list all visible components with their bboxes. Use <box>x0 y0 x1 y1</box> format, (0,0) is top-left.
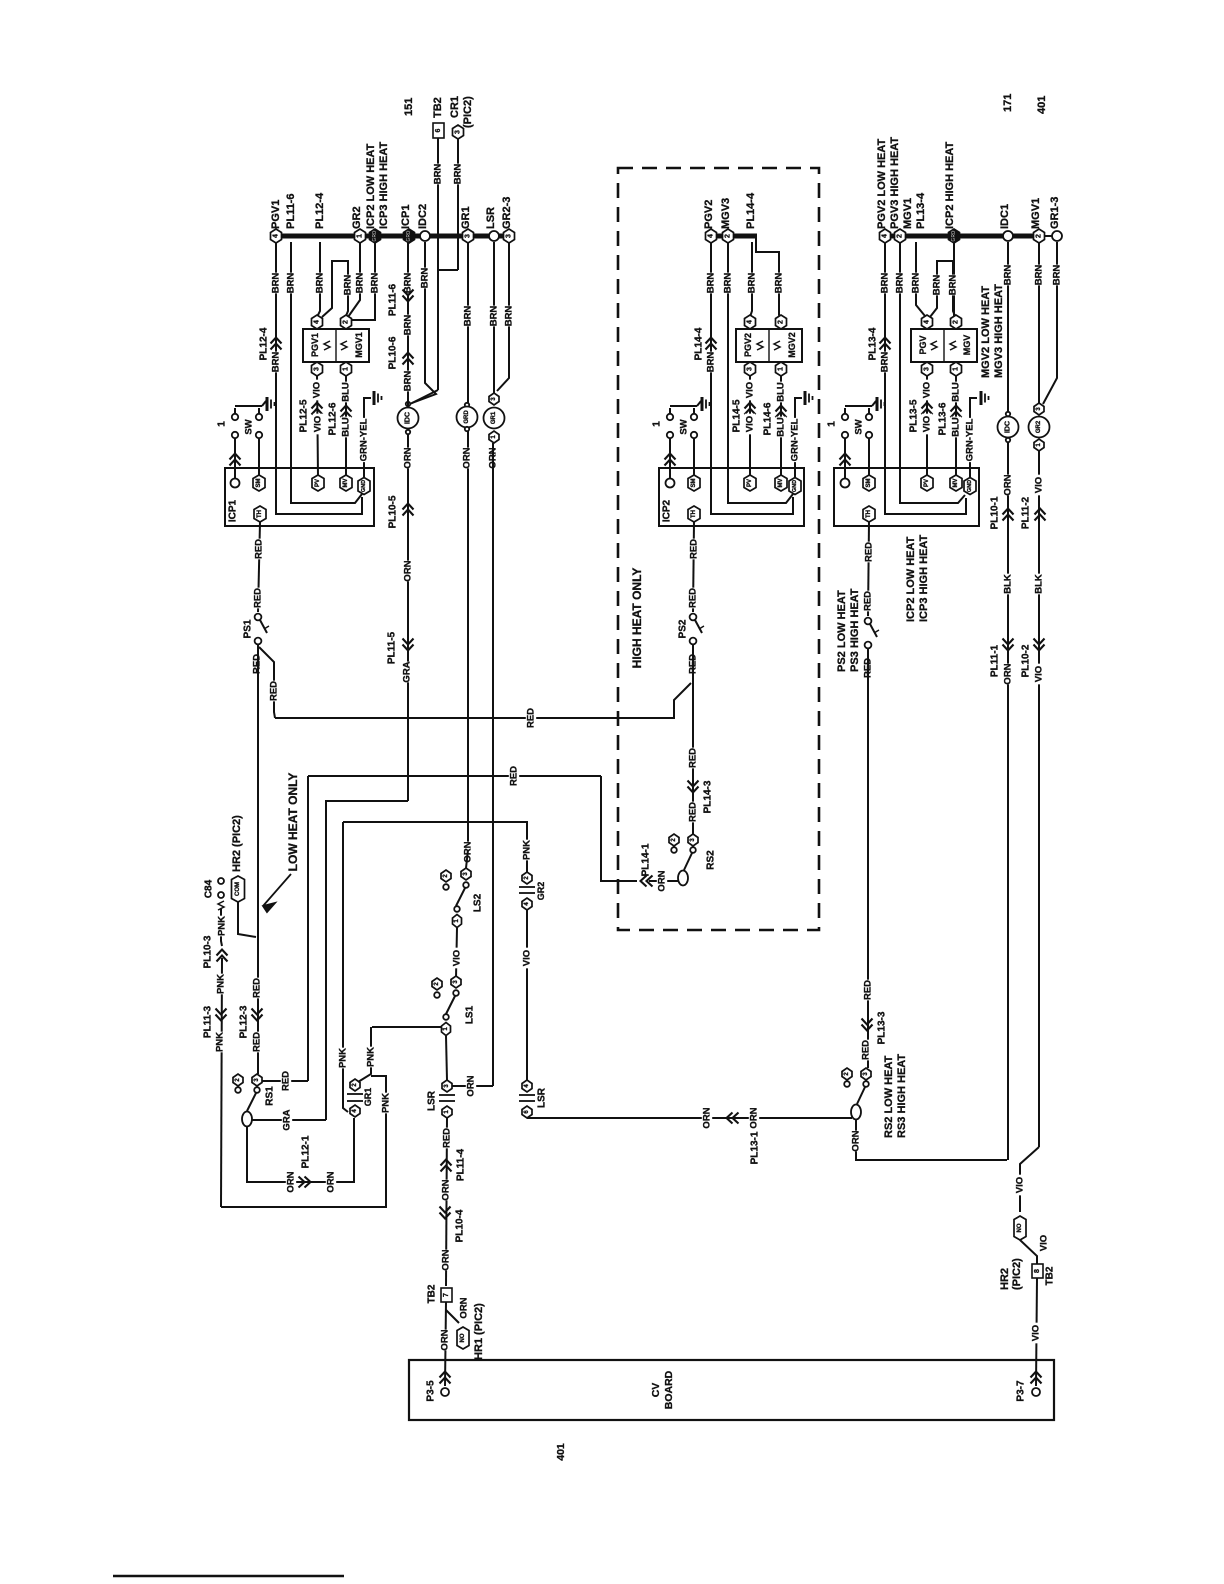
node ICP1 PV <box>312 475 324 491</box>
wire right ICP TH to PS (RED) <box>868 522 869 616</box>
svg-text:MGV2 LOW HEAT: MGV2 LOW HEAT <box>980 286 992 378</box>
node GRD terminal ICP1 on bus <box>404 229 415 243</box>
svg-text:VIO: VIO <box>922 416 933 432</box>
node ICP1 GND <box>358 478 370 495</box>
terminal block TB2-8 <box>1032 1264 1043 1278</box>
node ICP2 GND <box>789 478 801 495</box>
svg-text:PL10-1: PL10-1 <box>990 496 1001 529</box>
wire PL14-4 drop to PGV2 coil <box>750 242 752 317</box>
svg-text:PNK: PNK <box>217 916 228 936</box>
svg-text:PS3 HIGH HEAT: PS3 HIGH HEAT <box>849 588 861 672</box>
svg-text:ORN: ORN <box>403 560 414 581</box>
relay contact HR2 NO (PIC2) <box>1014 1216 1026 1240</box>
connector P3-5 chevron <box>440 1372 451 1384</box>
relay switch RS1 <box>233 1074 243 1086</box>
svg-text:4: 4 <box>708 234 715 238</box>
svg-text:ORN: ORN <box>466 1075 477 1096</box>
limit switch LS2 <box>441 870 451 882</box>
svg-text:MV: MV <box>343 479 349 488</box>
node right ICP MV <box>950 475 962 491</box>
connector PL10-4 chevron <box>440 1207 451 1219</box>
wire GRA to RS1 coil route <box>326 801 408 1120</box>
connector PL12-1 chevron <box>299 1177 311 1188</box>
svg-text:GRN-YEL: GRN-YEL <box>359 418 370 461</box>
wire TB2-8 to P3-7 (VIO) <box>1036 1278 1037 1386</box>
svg-text:PL11-4: PL11-4 <box>456 1148 467 1181</box>
wire PS2 down to RS2 (RED) <box>692 645 694 834</box>
board CV BOARD box <box>409 1360 1054 1420</box>
svg-text:1: 1 <box>953 367 960 371</box>
node ICP2 pin (circle) <box>666 479 675 488</box>
svg-text:GRD: GRD <box>372 230 378 242</box>
svg-text:GRA: GRA <box>402 661 413 682</box>
svg-text:MGV1: MGV1 <box>902 198 914 229</box>
svg-text:BRN: BRN <box>355 273 366 294</box>
svg-text:PL11-2: PL11-2 <box>1021 496 1032 529</box>
wire LS2 to LS1 (VIO) <box>456 928 457 978</box>
ground (right) <box>980 391 983 405</box>
svg-text:RED: RED <box>442 1128 453 1148</box>
igniter IDC (left) <box>406 402 410 406</box>
node PGV pin 4 (right) <box>922 315 933 329</box>
wire RS1 to PL12-1 (ORN) <box>247 1118 354 1182</box>
svg-text:8: 8 <box>1034 1269 1041 1273</box>
svg-text:PL14-4: PL14-4 <box>745 192 757 229</box>
wire PL12-4 drop to PGV1 coil <box>317 242 320 317</box>
svg-text:PL13-3: PL13-3 <box>877 1011 888 1044</box>
svg-text:BLK: BLK <box>1034 574 1045 594</box>
svg-text:VIO: VIO <box>313 416 324 432</box>
svg-text:ORN: ORN <box>462 447 473 468</box>
svg-text:RED: RED <box>281 1071 292 1091</box>
svg-text:VIO: VIO <box>1034 477 1045 493</box>
wire PL14-1 exit route <box>601 776 637 881</box>
node PGV2 terminal 4 <box>706 229 717 243</box>
node MGV3 terminal 2 <box>723 229 734 243</box>
gas valve PGV2/MGV2 box <box>736 329 802 362</box>
wire GRD/ICP1 drop to igniter <box>407 242 409 407</box>
svg-text:BRN: BRN <box>1003 265 1014 286</box>
svg-text:PL12-3: PL12-3 <box>239 1005 250 1038</box>
wire LSR link (ORN) <box>452 1085 493 1087</box>
svg-text:PL11-6: PL11-6 <box>285 194 297 229</box>
svg-text:GRD: GRD <box>464 410 470 424</box>
wire PS down to RS2 lower (RED) <box>867 649 869 1068</box>
svg-text:RS1: RS1 <box>265 1086 276 1106</box>
svg-text:PL11-3: PL11-3 <box>203 1005 214 1038</box>
svg-text:PGV1: PGV1 <box>270 200 282 229</box>
wire PGV drop to ICP nest (right) <box>885 242 966 514</box>
svg-text:BLU: BLU <box>951 382 962 402</box>
svg-text:GR1-3: GR1-3 <box>1049 197 1061 229</box>
svg-text:PGV2 LOW HEAT: PGV2 LOW HEAT <box>876 138 888 229</box>
ground (middle) <box>804 391 807 405</box>
wire ICP1 TH to PS1 (RED) <box>258 522 260 612</box>
svg-text:7: 7 <box>443 1293 450 1297</box>
svg-text:2: 2 <box>897 234 904 238</box>
flame sensor GR1 (left) <box>489 393 499 405</box>
svg-text:BRN: BRN <box>706 352 717 373</box>
svg-text:1: 1 <box>827 421 838 427</box>
wire MGV2-1 to ICP2 MV (BLU) <box>780 376 782 477</box>
wire TB2/CR1 link <box>438 269 458 271</box>
svg-text:LS2: LS2 <box>473 893 484 912</box>
svg-text:PGV3 HIGH HEAT: PGV3 HIGH HEAT <box>889 137 901 229</box>
svg-text:BRN: BRN <box>948 275 959 296</box>
svg-text:HR2 (PIC2): HR2 (PIC2) <box>231 815 243 872</box>
spark sensor GRD (left) <box>465 403 469 407</box>
connector PL10-6 chevron <box>403 353 414 365</box>
wire NO to TB2-8 <box>1020 1240 1037 1264</box>
svg-text:VIO: VIO <box>1015 1177 1026 1193</box>
svg-text:RED: RED <box>252 978 263 998</box>
svg-text:BRN: BRN <box>463 306 474 327</box>
node PGV1 pin 4 <box>312 315 323 329</box>
svg-text:PNK: PNK <box>215 1032 226 1052</box>
wire PNK down to PL11-3 <box>221 958 222 1207</box>
svg-text:PS2 LOW HEAT: PS2 LOW HEAT <box>836 590 848 672</box>
svg-text:PL13-4: PL13-4 <box>915 192 927 229</box>
switch SW (middle) <box>670 405 697 407</box>
svg-text:BRN: BRN <box>420 268 431 289</box>
node MGV2 pin 1 <box>776 362 787 376</box>
svg-text:GRN-YEL: GRN-YEL <box>965 418 976 461</box>
connector PL11-6 chevron <box>403 290 414 302</box>
connector PL11-4 chevron <box>441 1160 452 1172</box>
limit switch LS1 <box>432 978 442 990</box>
wire CR1-3 down <box>457 139 459 270</box>
svg-text:VIO: VIO <box>1039 1235 1050 1251</box>
svg-text:PNK: PNK <box>338 1048 349 1068</box>
svg-text:P3-7: P3-7 <box>1016 1380 1027 1402</box>
svg-text:ICP2 LOW HEAT: ICP2 LOW HEAT <box>365 143 377 229</box>
wire MGV-1 to ICP MV (BLU, right) <box>955 376 957 477</box>
svg-text:PL13-1: PL13-1 <box>750 1131 761 1164</box>
svg-text:BRN: BRN <box>706 273 717 294</box>
svg-text:PL14-4: PL14-4 <box>694 327 705 360</box>
connector PL12-4 chevron <box>271 338 282 350</box>
svg-text:IDC1: IDC1 <box>999 204 1011 229</box>
svg-text:ICP3 HIGH HEAT: ICP3 HIGH HEAT <box>378 142 390 229</box>
node PGV2 pin 4 <box>745 315 756 329</box>
node GRD terminal (right bus) <box>949 229 960 243</box>
svg-text:BRN: BRN <box>880 273 891 294</box>
wire bridge over PGV1/MGV1 coils <box>322 261 348 317</box>
wire ICP GND to ground (GRN-YEL, right) <box>970 398 977 477</box>
wire: main L1 bus (middle group) <box>706 234 757 239</box>
connector PL11-5 chevron <box>403 639 414 651</box>
svg-text:MGV2: MGV2 <box>787 332 797 358</box>
pressure switch PS1 <box>255 614 262 621</box>
svg-text:BOARD: BOARD <box>663 1370 675 1409</box>
svg-text:SM: SM <box>256 478 262 487</box>
wire PGV2 drop to ICP2 nest <box>711 242 793 514</box>
svg-text:GR2: GR2 <box>351 206 363 229</box>
svg-text:1: 1 <box>652 421 663 427</box>
svg-text:PS2: PS2 <box>678 619 689 638</box>
connector PL14-4 chevron <box>706 338 717 350</box>
svg-text:LSR: LSR <box>537 1087 548 1108</box>
svg-text:RED: RED <box>688 588 699 608</box>
svg-text:ORN: ORN <box>286 1171 297 1192</box>
svg-text:RED: RED <box>269 681 280 701</box>
svg-text:BRN: BRN <box>403 315 414 336</box>
wire IDC1 chain <box>1007 242 1009 1160</box>
svg-text:SW: SW <box>679 419 690 434</box>
svg-text:COM: COM <box>235 882 241 896</box>
svg-text:4: 4 <box>924 320 931 324</box>
node PGV1 pin 3 <box>312 362 323 376</box>
wire LS1 to LSR (left) <box>446 1036 447 1080</box>
svg-text:ICP2 HIGH HEAT: ICP2 HIGH HEAT <box>944 142 956 229</box>
wire PS1 down to RS1 (RED) <box>257 645 259 1074</box>
wire RED feed to PL14-1 (horizontal) <box>308 775 601 777</box>
svg-text:PGV: PGV <box>918 335 928 354</box>
svg-text:RED: RED <box>526 708 537 728</box>
svg-text:CR1: CR1 <box>449 96 461 118</box>
svg-text:2: 2 <box>1036 234 1043 238</box>
svg-text:(PIC2): (PIC2) <box>462 96 474 128</box>
relay switch RS2 (lower) <box>842 1068 852 1080</box>
svg-text:MGV3: MGV3 <box>720 198 732 229</box>
svg-text:ICP2 LOW HEAT: ICP2 LOW HEAT <box>905 536 917 622</box>
svg-text:ICP1: ICP1 <box>228 499 239 522</box>
svg-text:ORN: ORN <box>441 1179 452 1200</box>
igniter IDC (right) <box>1006 412 1010 416</box>
svg-text:PL14-5: PL14-5 <box>732 399 743 432</box>
connector PL10-3 chevron <box>217 950 228 962</box>
wire RS1 coil (GRA) <box>252 1119 326 1121</box>
svg-text:GND: GND <box>967 480 973 492</box>
svg-text:PL14-1: PL14-1 <box>641 843 652 876</box>
wire TB2-7 to P3-5 <box>445 1302 446 1386</box>
svg-text:3: 3 <box>924 367 931 371</box>
svg-text:PNK: PNK <box>522 840 533 860</box>
node MGV1 pin 2 <box>341 315 352 329</box>
wire LS1 to GR1 hex2 (PNK) <box>358 1027 371 1082</box>
svg-text:IDC2: IDC2 <box>417 204 429 229</box>
svg-text:PL13-4: PL13-4 <box>868 327 879 360</box>
svg-text:BRN: BRN <box>723 273 734 294</box>
svg-text:BRN: BRN <box>1052 265 1063 286</box>
svg-text:RS2 LOW HEAT: RS2 LOW HEAT <box>883 1055 895 1138</box>
node ICP1 SM <box>253 475 265 491</box>
svg-text:VIO: VIO <box>452 950 463 966</box>
wire LS1 common left <box>372 1026 442 1028</box>
connector chevron at ICP2 pin1 <box>665 454 676 466</box>
svg-text:PL12-4: PL12-4 <box>314 192 326 229</box>
svg-text:BLU: BLU <box>341 382 352 402</box>
svg-text:RS2: RS2 <box>706 850 717 870</box>
svg-text:HR1 (PIC2): HR1 (PIC2) <box>473 1303 485 1360</box>
wire SW to ICP1 <box>234 438 236 478</box>
node ICP1 pin (circle) <box>231 479 240 488</box>
node MGV1 pin 1 <box>341 362 352 376</box>
node GR1-3 terminal on bus <box>1052 231 1062 241</box>
svg-text:1: 1 <box>343 367 350 371</box>
svg-text:SM: SM <box>691 478 697 487</box>
svg-text:PL12-1: PL12-1 <box>301 1135 312 1168</box>
node GR2-3 terminal on bus <box>504 229 515 243</box>
svg-text:NO: NO <box>460 1333 466 1342</box>
svg-text:PNK: PNK <box>366 1047 377 1067</box>
svg-text:RED: RED <box>253 588 264 608</box>
svg-text:3: 3 <box>465 234 472 238</box>
igniter GR1 (capacitor symbol) <box>350 1079 360 1091</box>
wire LSR to RS2 (ORN horizontal) <box>527 1117 852 1119</box>
svg-text:MV: MV <box>953 479 959 488</box>
node right ICP TH <box>863 506 875 522</box>
wire PNK left leg to GR1 hex4 <box>343 822 348 1112</box>
wire ICP2 GND to ground (GRN-YEL) <box>795 398 802 477</box>
svg-text:PV: PV <box>747 479 753 487</box>
svg-text:VIO: VIO <box>522 950 533 966</box>
svg-text:ORN: ORN <box>851 1130 862 1151</box>
svg-text:ORN: ORN <box>440 1329 451 1350</box>
svg-text:MGV1: MGV1 <box>354 332 364 358</box>
connector PL10-5 chevron <box>403 504 414 516</box>
wire MGV1 chain <box>1038 242 1040 406</box>
svg-text:BRN: BRN <box>370 273 381 294</box>
svg-text:GRA: GRA <box>282 1109 293 1130</box>
svg-text:PL14-3: PL14-3 <box>703 780 714 813</box>
svg-text:BRN: BRN <box>403 371 414 392</box>
svg-text:PL10-6: PL10-6 <box>388 336 399 369</box>
wire riser to HIGH HEAT ONLY box <box>307 776 309 1081</box>
svg-text:PL12-6: PL12-6 <box>328 402 339 435</box>
svg-text:BRN: BRN <box>433 164 444 185</box>
svg-text:BLK: BLK <box>1003 574 1014 594</box>
node PGV hex 4 (right bus) <box>880 229 891 243</box>
svg-text:LOW HEAT ONLY: LOW HEAT ONLY <box>286 773 300 872</box>
svg-text:BRN: BRN <box>911 273 922 294</box>
svg-text:P3-5: P3-5 <box>426 1380 437 1402</box>
node ICP1 TH <box>254 506 266 522</box>
wire GR2 to LSR right (VIO) <box>526 910 528 1080</box>
svg-text:PL12-5: PL12-5 <box>299 399 310 432</box>
svg-text:BRN: BRN <box>453 164 464 185</box>
svg-text:ICP1: ICP1 <box>400 205 412 229</box>
connector PL11-1 chevron <box>1003 639 1014 651</box>
wire IDC2 drop to igniter <box>412 242 436 403</box>
svg-text:GRN-YEL: GRN-YEL <box>790 418 801 461</box>
wire bus elbow to MGV2 coil <box>756 238 781 318</box>
connector PL13-4 chevron <box>880 338 891 350</box>
connector PL10-1 chevron <box>1003 509 1014 521</box>
svg-text:3: 3 <box>455 130 462 134</box>
svg-text:PL14-6: PL14-6 <box>763 402 774 435</box>
connector chevron at right ICP pin1 <box>840 454 851 466</box>
svg-text:BLU: BLU <box>776 417 787 437</box>
svg-text:C84: C84 <box>204 879 215 898</box>
svg-text:GR1: GR1 <box>363 1088 373 1107</box>
svg-text:PV: PV <box>924 479 930 487</box>
svg-text:PL11-5: PL11-5 <box>387 631 398 664</box>
node LSR terminal on bus <box>489 231 499 241</box>
wire jog to HR2 contact <box>1020 1147 1039 1212</box>
node MGV2 pin 2 <box>776 315 787 329</box>
node GRD terminal (left) on bus <box>370 229 381 243</box>
control board ICP1 box <box>225 468 374 526</box>
svg-text:RED: RED <box>863 980 874 1000</box>
wire ICP1 GND to ground (GRN-YEL) <box>364 398 371 477</box>
node MGV pin 2 (right) <box>951 315 962 329</box>
relay switch RS2 (upper) <box>669 834 679 846</box>
svg-text:RED: RED <box>689 539 700 559</box>
wire COM to RED wire <box>238 902 256 937</box>
svg-text:1: 1 <box>357 234 364 238</box>
svg-text:6: 6 <box>435 128 442 132</box>
wire RED feed to PS2 (horizontal) <box>275 683 691 718</box>
svg-text:BRN: BRN <box>895 273 906 294</box>
svg-text:(PIC2): (PIC2) <box>1011 1258 1023 1290</box>
svg-text:RS3 HIGH HEAT: RS3 HIGH HEAT <box>896 1054 908 1138</box>
node ICP2 MV <box>775 475 787 491</box>
wire MGV1-1 to ICP1 MV (BLU) <box>345 376 347 477</box>
svg-text:BRN: BRN <box>774 273 785 294</box>
svg-text:BRN: BRN <box>271 352 282 373</box>
svg-text:BRN: BRN <box>286 273 297 294</box>
igniter GR2 (capacitor symbol) <box>522 872 532 884</box>
node MGV1 terminal on bus <box>1034 229 1045 243</box>
svg-text:BRN: BRN <box>747 273 758 294</box>
svg-text:BRN: BRN <box>315 273 326 294</box>
svg-text:PL11-1: PL11-1 <box>990 644 1001 677</box>
svg-text:GND: GND <box>361 480 367 492</box>
gas valve PGV1/MGV1 box <box>303 329 369 362</box>
node GR2 terminal 1 on bus <box>355 229 366 243</box>
svg-text:RED: RED <box>861 1040 872 1060</box>
wire PGV1/PL12-4 drop (x=276) to ICP1 nest <box>276 242 362 514</box>
svg-text:401: 401 <box>555 1443 567 1461</box>
wire branch PS1 to HIGH-HEAT line <box>259 647 275 718</box>
svg-text:LSR: LSR <box>485 207 497 229</box>
svg-text:GR1: GR1 <box>491 411 497 424</box>
svg-text:SM: SM <box>866 478 872 487</box>
svg-text:HR2: HR2 <box>999 1268 1011 1290</box>
wire GRD drop to MGV coil (right) <box>954 242 956 318</box>
svg-text:PL12-4: PL12-4 <box>259 327 270 360</box>
svg-text:3: 3 <box>506 234 513 238</box>
svg-text:BRN: BRN <box>880 352 891 373</box>
wire MGV3 drop to ICP2 nest <box>728 242 793 503</box>
svg-text:GRD: GRD <box>951 230 957 242</box>
node MGV hex 2 (right bus) <box>895 229 906 243</box>
svg-text:171: 171 <box>1002 94 1014 112</box>
svg-text:CV: CV <box>650 1383 662 1398</box>
svg-text:VIO: VIO <box>312 382 323 398</box>
control board ICP2 box <box>659 468 804 526</box>
connector PL13-5 chevron <box>922 403 933 415</box>
node PGV pin 3 (right) <box>922 362 933 376</box>
svg-text:PL10-4: PL10-4 <box>455 1209 466 1242</box>
svg-text:BRN: BRN <box>343 275 354 296</box>
svg-text:ORN: ORN <box>403 447 414 468</box>
svg-text:PL13-5: PL13-5 <box>909 399 920 432</box>
svg-text:PGV1: PGV1 <box>310 333 320 357</box>
svg-text:MGV1: MGV1 <box>1030 198 1042 229</box>
connector P3-7 chevron <box>1031 1372 1042 1384</box>
node MGV pin 1 (right) <box>951 362 962 376</box>
svg-text:NO: NO <box>1017 1223 1023 1232</box>
switch SW (right) <box>845 405 872 407</box>
wire GR2-3 bus drop <box>497 242 509 391</box>
svg-text:GR2-3: GR2-3 <box>501 197 513 229</box>
svg-text:2: 2 <box>725 234 732 238</box>
connector PL13-6 chevron <box>951 406 962 418</box>
wire GR1 sensor to LSR <box>492 443 494 1086</box>
svg-text:VIO: VIO <box>1031 1325 1042 1341</box>
